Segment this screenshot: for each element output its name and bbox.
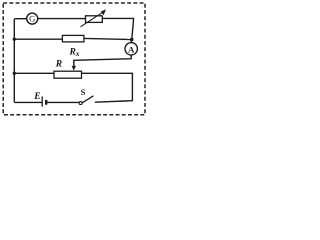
wire: top row middle segment bbox=[38, 18, 86, 20]
wire: top row right segment and right vertical down to node bbox=[102, 18, 133, 39]
switch S blade bbox=[82, 96, 93, 103]
node: junction dot left (Rx row) bbox=[13, 38, 16, 41]
svg-text:E: E bbox=[33, 92, 40, 102]
dashed frame border bbox=[3, 3, 145, 115]
wire: left vertical bus bbox=[13, 19, 15, 102]
svg-text:R: R bbox=[55, 59, 62, 69]
wire: bottom row middle segment (battery to switch) bbox=[47, 101, 79, 103]
svg-text:A: A bbox=[128, 44, 135, 54]
wire: R row left segment bbox=[14, 72, 54, 74]
battery E long plate bbox=[41, 96, 43, 106]
wire: Rx row left segment bbox=[14, 38, 62, 40]
variable resistor (rheostat) R' body bbox=[86, 16, 103, 23]
svg-text:G: G bbox=[29, 14, 35, 24]
switch S hinge bbox=[79, 102, 82, 105]
node: junction dot above ammeter bbox=[130, 38, 134, 42]
variable resistor arrow bbox=[81, 9, 107, 26]
wire: top row left segment bbox=[14, 18, 27, 20]
rheostat R body bbox=[54, 71, 82, 78]
wire: R row right segment, right vertical, bottom right bbox=[82, 73, 133, 102]
node: junction dot left (R row) bbox=[13, 72, 16, 75]
wire: bottom row left segment bbox=[14, 101, 41, 103]
wire: node to ammeter bbox=[130, 40, 132, 43]
slider arrow onto R bbox=[72, 66, 76, 71]
battery E short plate bbox=[45, 100, 47, 105]
galvanometer G bbox=[27, 13, 38, 24]
wire: ammeter down, left to slider bbox=[74, 55, 131, 67]
wire: Rx row right segment bbox=[84, 38, 130, 39]
svg-text:S: S bbox=[81, 87, 86, 97]
ammeter A bbox=[125, 43, 137, 55]
resistor Rx body bbox=[62, 35, 84, 42]
